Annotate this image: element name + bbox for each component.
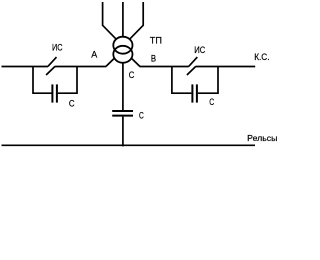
svg-text:С: С xyxy=(209,97,214,107)
svg-text:ИС: ИС xyxy=(194,45,205,55)
transformer T1 secondary winding xyxy=(113,46,132,63)
insulating section IS2 upper blade xyxy=(189,57,198,66)
insulating section IS1 lower blade xyxy=(46,66,55,75)
capacitor C1 right plate xyxy=(56,84,58,102)
wire bypass loop C1 right branch xyxy=(58,67,77,94)
wire contact line IS1 to node A xyxy=(55,66,106,68)
svg-text:ИС: ИС xyxy=(52,43,63,53)
svg-text:ТП: ТП xyxy=(150,35,162,45)
svg-text:С: С xyxy=(69,98,75,108)
feeder phase wire middle xyxy=(122,2,124,38)
svg-text:К.С.: К.С. xyxy=(254,52,269,62)
wire transformer lead to node C xyxy=(122,62,124,110)
svg-text:Рельсы: Рельсы xyxy=(247,133,277,143)
svg-text:С: С xyxy=(129,70,135,80)
svg-text:В: В xyxy=(151,54,156,64)
capacitor C1 left plate xyxy=(51,84,53,102)
insulating section IS2 lower blade xyxy=(187,66,196,75)
rails return wire xyxy=(2,144,256,146)
wire contact line left segment xyxy=(2,66,49,68)
wire contact line node B to IS2 xyxy=(140,66,189,68)
insulating section IS1 upper blade xyxy=(48,57,57,66)
capacitor C2 right plate xyxy=(196,84,198,102)
svg-text:С: С xyxy=(139,110,144,120)
wire transformer lead to node B xyxy=(131,58,140,66)
capacitor C2 left plate xyxy=(191,84,193,102)
feeder phase wire right xyxy=(130,2,144,39)
svg-text:A: A xyxy=(91,49,97,59)
wire contact line IS2 to К.С. xyxy=(196,66,256,68)
wire capacitor C3 to rails xyxy=(122,117,124,147)
feeder phase wire left xyxy=(103,2,117,39)
capacitor C3 bottom plate xyxy=(112,115,133,117)
wire bypass loop C2 right branch xyxy=(198,67,218,94)
wire bypass loop C2 left branch xyxy=(172,67,192,94)
transformer T1 primary winding xyxy=(113,37,132,54)
wire bypass loop C1 left branch xyxy=(33,67,52,94)
wire transformer lead to node A xyxy=(106,58,115,66)
capacitor C3 top plate xyxy=(112,110,133,112)
